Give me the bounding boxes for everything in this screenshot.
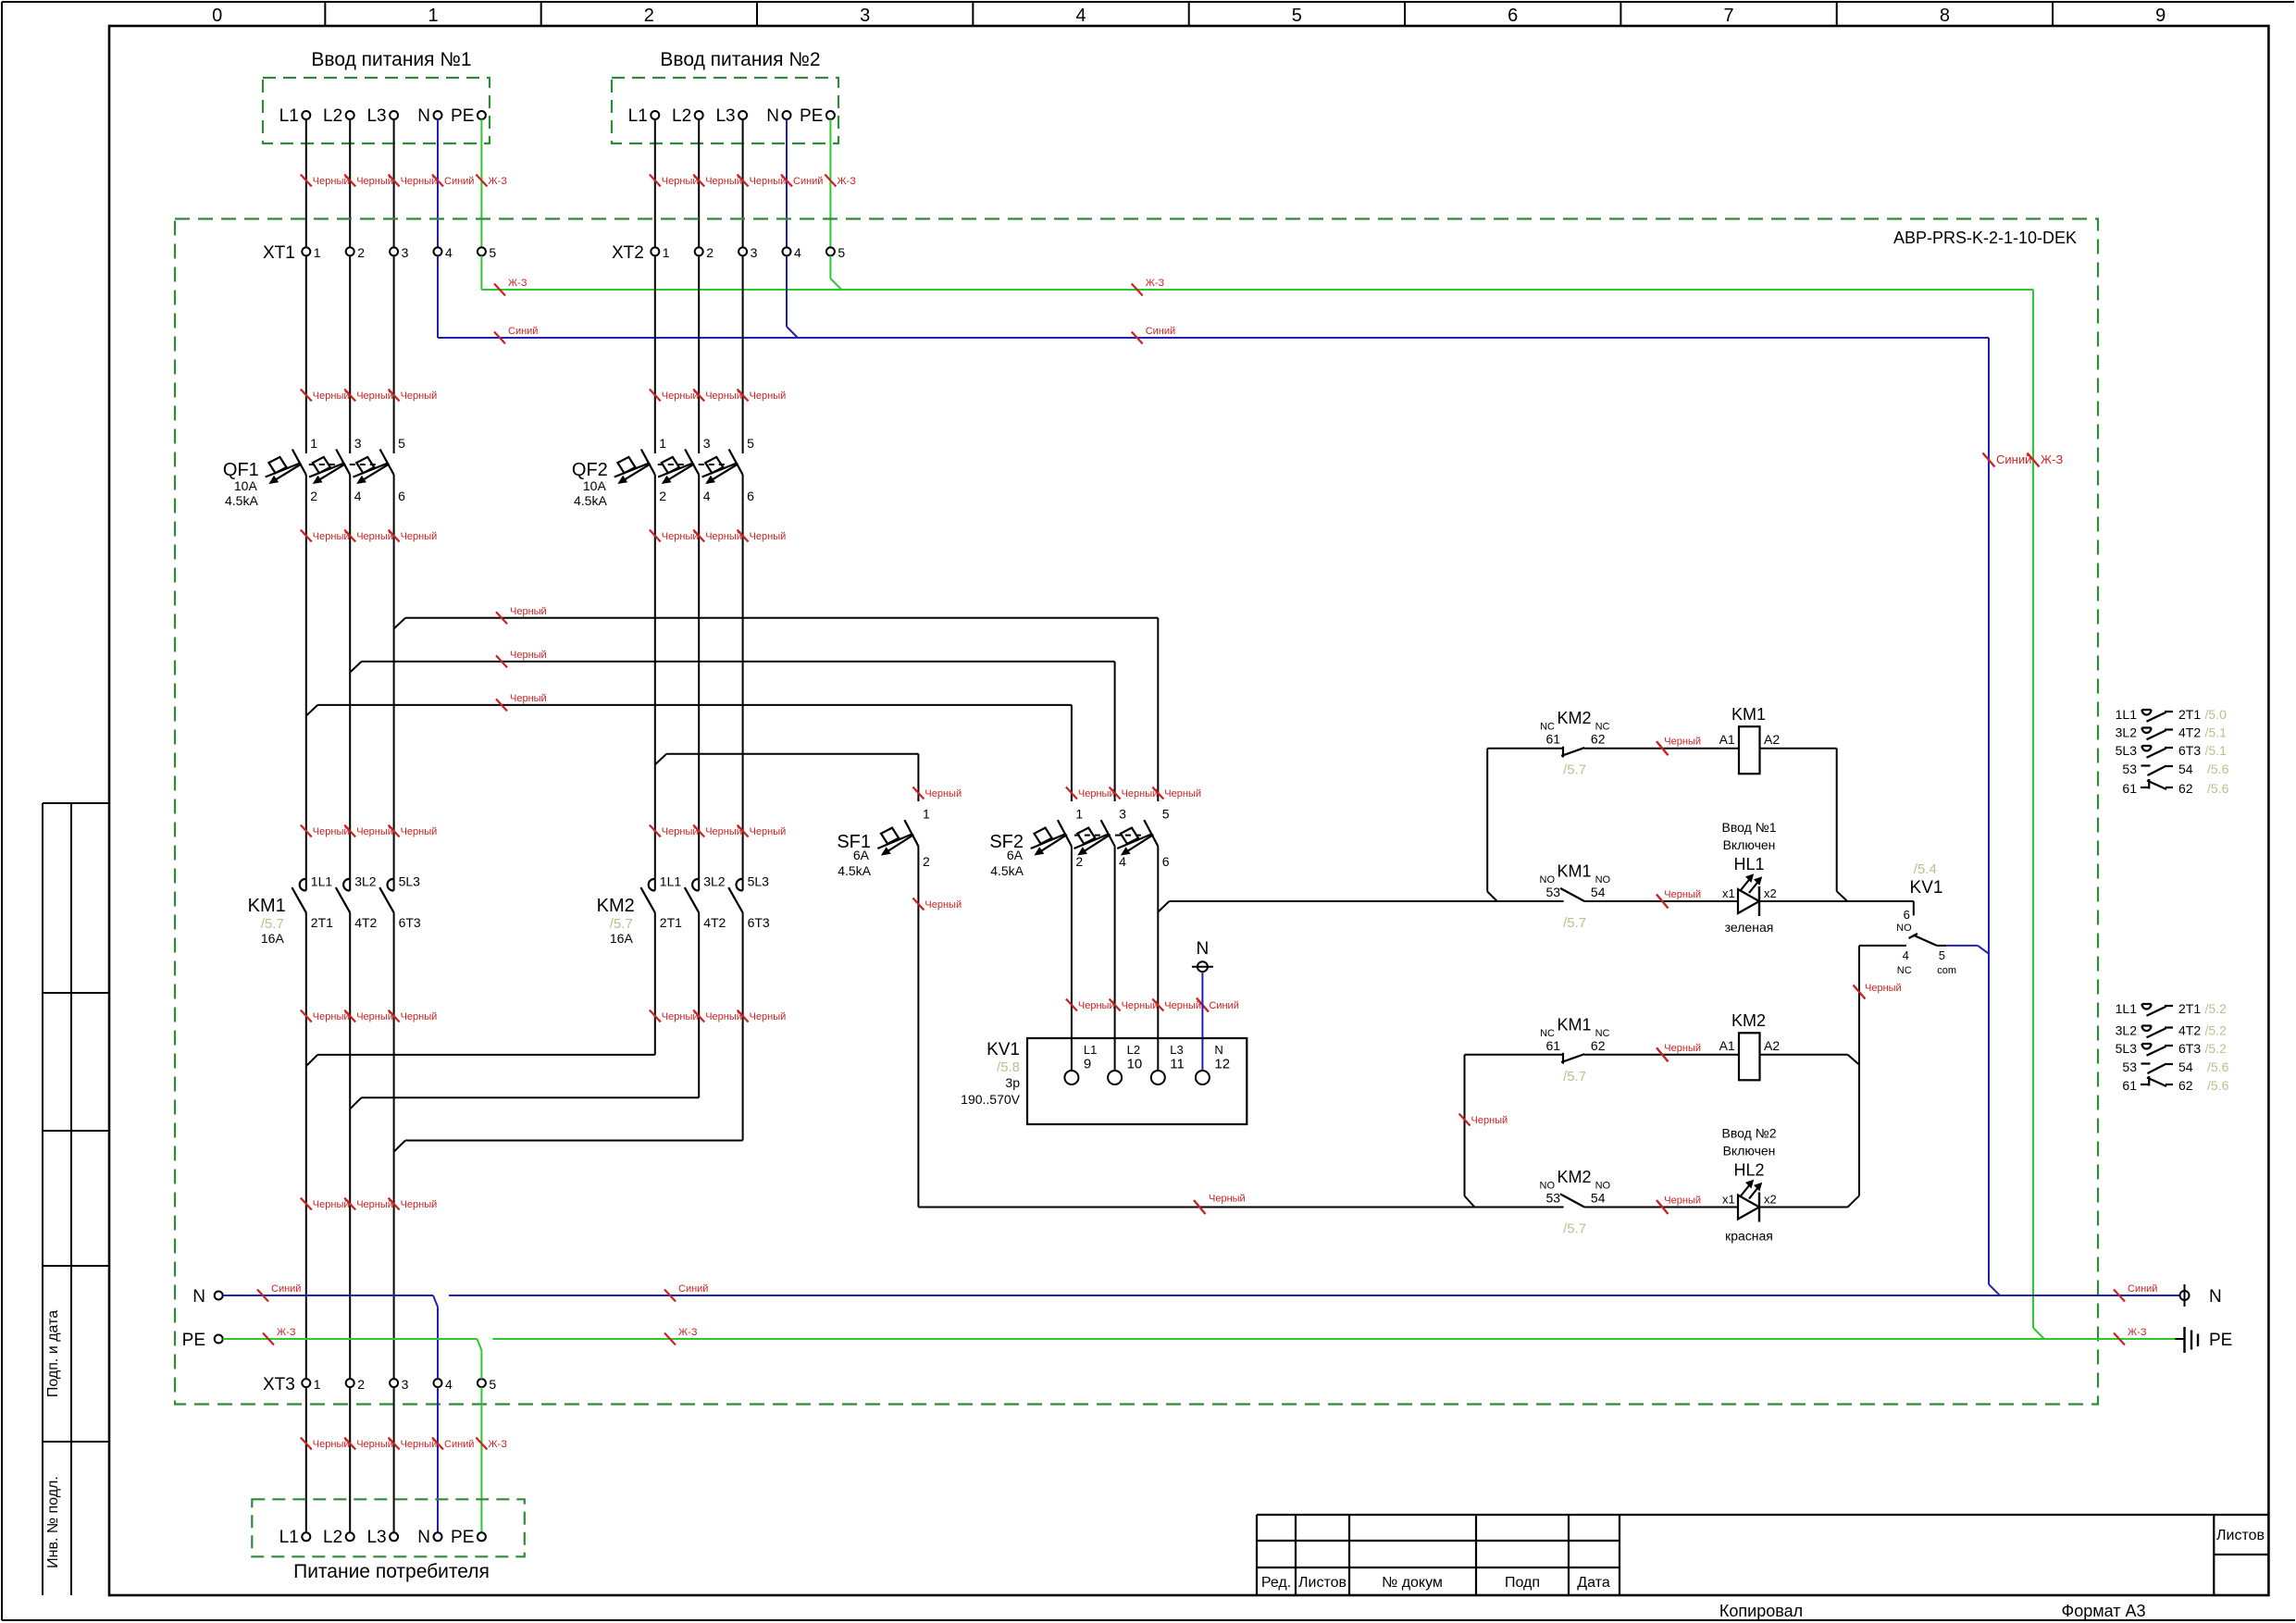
wire KV1 com to N (blue) bbox=[1946, 945, 1978, 947]
colour mark KM2 output L2 bbox=[693, 1010, 704, 1022]
svg-text:Черный: Черный bbox=[313, 531, 350, 542]
junction tap L3->SF2 pole5 bbox=[394, 618, 405, 629]
junction com to N vertical bbox=[1978, 946, 1989, 954]
svg-text:NC: NC bbox=[1897, 965, 1912, 976]
svg-text:5: 5 bbox=[838, 245, 845, 260]
svg-text:2: 2 bbox=[644, 6, 654, 26]
svg-text:1L1: 1L1 bbox=[311, 874, 333, 889]
svg-text:5L3: 5L3 bbox=[748, 874, 770, 889]
svg-text:Черный: Черный bbox=[750, 390, 787, 402]
colour mark KM1 output 3 bbox=[389, 1010, 400, 1022]
breaker QF1 pole 3 bbox=[380, 450, 394, 476]
svg-text:Черный: Черный bbox=[313, 176, 350, 187]
wire KV1 pin4 west bbox=[1859, 945, 1906, 947]
colour mark SF2 pole 3 input bbox=[1152, 787, 1163, 799]
breaker QF2 pole 2 bbox=[685, 450, 699, 476]
svg-text:53: 53 bbox=[1546, 885, 1561, 899]
svg-text:A1: A1 bbox=[1719, 732, 1735, 747]
svg-text:PE: PE bbox=[451, 106, 474, 126]
colour marks KV1 inputs bbox=[1066, 999, 1077, 1011]
PE mark Zh-Z right vert bbox=[2028, 453, 2040, 467]
svg-text:x2: x2 bbox=[1764, 886, 1777, 900]
svg-text:2T1: 2T1 bbox=[2178, 707, 2201, 722]
colour mark SF1 input bbox=[912, 787, 924, 799]
svg-text:3: 3 bbox=[703, 436, 711, 451]
svg-text:/5.7: /5.7 bbox=[1563, 1069, 1586, 1084]
breaker QF1 pole 1 bbox=[292, 450, 306, 476]
PE mark Zh-Z left bbox=[494, 284, 505, 296]
wire L1 input1 bbox=[305, 119, 307, 247]
svg-text:Синий: Синий bbox=[444, 176, 474, 187]
colour mark above QF2 pole 2 bbox=[693, 390, 704, 402]
svg-text:/5.2: /5.2 bbox=[2205, 1001, 2228, 1016]
svg-text:6A: 6A bbox=[853, 848, 870, 862]
svg-text:2T1: 2T1 bbox=[311, 915, 333, 930]
KM1 contact mirror 5L3-6T3 bbox=[2142, 746, 2152, 751]
colour mark row3 riser bbox=[1459, 1114, 1471, 1126]
svg-text:5L3: 5L3 bbox=[2116, 1041, 2138, 1056]
svg-text:L2: L2 bbox=[1127, 1043, 1140, 1057]
svg-text:1: 1 bbox=[1075, 807, 1083, 822]
wire PE right vertical bbox=[2032, 290, 2034, 1328]
svg-text:61: 61 bbox=[2122, 1078, 2137, 1093]
svg-text:62: 62 bbox=[1591, 1038, 1606, 1053]
wire KM2 output L3 down bbox=[742, 912, 744, 1140]
svg-text:NO: NO bbox=[1896, 923, 1912, 934]
wire phase 3 XT->QF1 bbox=[393, 255, 395, 453]
wire tap L1->SF2 pole1 bbox=[317, 704, 1072, 706]
wire KM2-NO to HL2 bbox=[1584, 1207, 1738, 1208]
wire XT3-1 -> consumer bbox=[305, 1387, 307, 1532]
terminal L2 input2 bbox=[695, 111, 703, 119]
svg-text:/5.2: /5.2 bbox=[2205, 1041, 2228, 1056]
svg-text:Черный: Черный bbox=[750, 531, 787, 542]
svg-text:54: 54 bbox=[1591, 1191, 1606, 1206]
wire row1 left riser bbox=[1486, 749, 1488, 892]
ABP-PRS enclosure dashed box bbox=[175, 219, 2098, 1405]
svg-text:Черный: Черный bbox=[356, 176, 393, 187]
svg-text:Черный: Черный bbox=[1664, 1043, 1701, 1054]
svg-text:Черный: Черный bbox=[356, 1439, 393, 1450]
wire KM2 output L1 west bbox=[317, 1054, 655, 1056]
wire QF2 pole 2 -> KM2 bbox=[698, 475, 700, 890]
colour mark row4 bbox=[1657, 1200, 1669, 1214]
wire XT3-3 -> consumer bbox=[393, 1387, 395, 1532]
svg-text:3L2: 3L2 bbox=[703, 874, 726, 889]
terminal N consumer bbox=[434, 1532, 442, 1541]
wire L2 input2 bbox=[698, 119, 700, 247]
wire row2 from SF2-6 branch bbox=[1169, 900, 1563, 902]
svg-text:10: 10 bbox=[1127, 1057, 1143, 1072]
terminal PE input2 bbox=[826, 111, 835, 119]
wire phase 2 XT->QF1 bbox=[349, 255, 351, 453]
svg-text:/5.7: /5.7 bbox=[261, 916, 284, 932]
svg-text:5L3: 5L3 bbox=[399, 874, 421, 889]
svg-text:L3: L3 bbox=[366, 1528, 386, 1547]
wire PE drop from XT2-5 bbox=[829, 255, 831, 279]
svg-text:Ж-З: Ж-З bbox=[277, 1327, 296, 1338]
svg-text:2: 2 bbox=[706, 245, 714, 260]
svg-text:L3: L3 bbox=[1170, 1043, 1183, 1057]
wire tap QF2-L1->SF1 bbox=[666, 753, 918, 755]
svg-text:53: 53 bbox=[2122, 1059, 2137, 1074]
svg-text:Ж-З: Ж-З bbox=[488, 1439, 507, 1450]
wire PE input2 (green) bbox=[829, 119, 831, 247]
KV1 pin 11 (L3) bbox=[1151, 1071, 1165, 1084]
svg-text:Ж-З: Ж-З bbox=[488, 176, 507, 187]
wire L1 input2 bbox=[654, 119, 656, 247]
svg-text:1L1: 1L1 bbox=[660, 874, 682, 889]
svg-text:6T3: 6T3 bbox=[399, 915, 421, 930]
svg-text:KM1: KM1 bbox=[1557, 1015, 1591, 1034]
wire phase 2 XT->QF2 bbox=[698, 255, 700, 453]
svg-text:Черный: Черный bbox=[1078, 1000, 1115, 1011]
svg-text:Черный: Черный bbox=[510, 650, 547, 661]
svg-text:4: 4 bbox=[445, 1377, 453, 1392]
svg-text:Ввод №2: Ввод №2 bbox=[1722, 1126, 1777, 1141]
svg-text:A1: A1 bbox=[1719, 1038, 1735, 1053]
svg-text:1L1: 1L1 bbox=[2116, 707, 2138, 722]
KV1 contact lever bbox=[1909, 934, 1918, 938]
wire HL2 east bbox=[1759, 1207, 1848, 1208]
KM1 contact mirror 3L2-4T2 bbox=[2142, 728, 2152, 734]
svg-text:Черный: Черный bbox=[356, 826, 393, 837]
colour mark above QF2 pole 1 bbox=[650, 390, 661, 402]
svg-text:61: 61 bbox=[1546, 732, 1561, 747]
junction L1 outputs bbox=[306, 1055, 317, 1066]
svg-text:XT3: XT3 bbox=[263, 1375, 295, 1394]
svg-text:PE: PE bbox=[182, 1331, 205, 1350]
wire PE input1 (green) bbox=[480, 119, 482, 247]
svg-text:53: 53 bbox=[2122, 762, 2137, 776]
svg-text:2: 2 bbox=[1075, 854, 1083, 869]
svg-text:x2: x2 bbox=[1764, 1193, 1777, 1207]
svg-text:Листов: Листов bbox=[2216, 1528, 2265, 1543]
svg-text:5L3: 5L3 bbox=[2116, 743, 2138, 758]
N mark Siniy right vert bbox=[1983, 453, 1995, 467]
KV1 pin 9 (L1) bbox=[1064, 1071, 1078, 1084]
svg-text:6A: 6A bbox=[1007, 848, 1024, 862]
lamp HL2 (LED) bbox=[1738, 1196, 1759, 1220]
wire N top bus (blue) bbox=[438, 337, 1989, 339]
svg-text:Черный: Черный bbox=[662, 1011, 699, 1022]
node N tap symbol bbox=[1198, 961, 1208, 972]
N mark Siniy bus-left bbox=[257, 1290, 268, 1302]
svg-text:A2: A2 bbox=[1764, 1038, 1780, 1053]
svg-text:Синий: Синий bbox=[793, 176, 823, 187]
svg-text:№ докум: № докум bbox=[1382, 1575, 1443, 1591]
svg-text:Черный: Черный bbox=[1664, 1196, 1701, 1207]
colour mark above KM2 pole 2 bbox=[693, 825, 704, 837]
wire PE top bus (green) bbox=[481, 289, 2033, 291]
wire SF1 down to row4 bbox=[917, 847, 919, 1208]
svg-text:1: 1 bbox=[310, 436, 317, 451]
breaker QF1 pole 2 bbox=[336, 450, 350, 476]
svg-text:Черный: Черный bbox=[1209, 1194, 1246, 1205]
wire row1 to KM2-NC bbox=[1487, 748, 1563, 750]
coil KM1 bbox=[1739, 726, 1760, 774]
svg-text:KM1: KM1 bbox=[1557, 862, 1591, 881]
lamp HL1 (LED) bbox=[1738, 889, 1759, 913]
wire phase 1 XT->QF2 bbox=[654, 255, 656, 453]
svg-text:Ввод питания №2: Ввод питания №2 bbox=[660, 49, 820, 70]
N mark Siniy bus-right bbox=[2114, 1290, 2125, 1302]
wire right riser rows1-2 bbox=[1836, 749, 1838, 892]
wire KM1 coil A2 east bbox=[1760, 748, 1837, 750]
svg-text:L3: L3 bbox=[366, 106, 386, 126]
svg-text:/5.2: /5.2 bbox=[2205, 1023, 2228, 1038]
svg-text:XT2: XT2 bbox=[612, 243, 644, 263]
coil KM2 bbox=[1739, 1033, 1760, 1080]
contactor KM1 main contact 1 bbox=[300, 879, 306, 891]
wire L2 input1 bbox=[349, 119, 351, 247]
svg-text:62: 62 bbox=[2178, 1078, 2193, 1093]
breaker SF2 pole 1 bbox=[1058, 820, 1072, 846]
N mark Siniy left bbox=[494, 332, 505, 344]
svg-text:5: 5 bbox=[1939, 948, 1945, 962]
junction L2 outputs bbox=[350, 1097, 361, 1109]
junction N right bus bbox=[1989, 1284, 2000, 1295]
svg-text:6: 6 bbox=[1162, 854, 1170, 869]
contactor KM1 main contact 3 bbox=[388, 879, 394, 891]
svg-text:Черный: Черный bbox=[1471, 1115, 1508, 1126]
svg-text:5: 5 bbox=[398, 436, 405, 451]
colour mark KM1 output 2 bbox=[344, 1010, 355, 1022]
terminal L2 consumer bbox=[346, 1532, 354, 1541]
svg-text:Черный: Черный bbox=[356, 390, 393, 402]
svg-text:Черный: Черный bbox=[705, 1011, 742, 1022]
aux contact KM1 NO 53-54 bbox=[1560, 888, 1584, 901]
svg-text:9: 9 bbox=[2155, 6, 2166, 26]
wire PE bus mid (green) bbox=[492, 1338, 2175, 1340]
svg-text:L1: L1 bbox=[1084, 1043, 1097, 1057]
colour mark above QF1 pole 1 bbox=[301, 390, 312, 402]
svg-text:3: 3 bbox=[860, 6, 870, 26]
svg-text:зеленая: зеленая bbox=[1725, 920, 1774, 935]
consumer dashed box bbox=[252, 1499, 525, 1556]
svg-text:Листов: Листов bbox=[1298, 1575, 1347, 1591]
PE mark Zh-Z bus-mid bbox=[664, 1333, 676, 1345]
svg-text:Черный: Черный bbox=[401, 1199, 438, 1210]
wire KM2 output L2 west bbox=[362, 1096, 700, 1098]
svg-text:190..570V: 190..570V bbox=[961, 1092, 1020, 1107]
svg-text:Черный: Черный bbox=[1122, 1000, 1159, 1011]
svg-text:PE: PE bbox=[800, 106, 823, 126]
svg-text:6: 6 bbox=[747, 489, 754, 503]
wire QF1 pole 1 -> KM1 bbox=[305, 475, 307, 890]
svg-text:1: 1 bbox=[314, 1377, 321, 1392]
wire XT3-4 -> consumer (blue) bbox=[437, 1387, 439, 1532]
svg-text:1: 1 bbox=[663, 245, 670, 260]
wire row4 west part bbox=[918, 1207, 1563, 1208]
wire SF1 drop bbox=[917, 754, 919, 801]
svg-text:L2: L2 bbox=[323, 1528, 342, 1547]
svg-text:62: 62 bbox=[1591, 732, 1606, 747]
junction row1 riser to row2 bbox=[1487, 892, 1497, 902]
svg-text:4T2: 4T2 bbox=[2178, 1023, 2201, 1038]
contactor KM2 main contact 2 bbox=[692, 879, 699, 891]
svg-text:4T2: 4T2 bbox=[703, 915, 726, 930]
svg-text:Синий: Синий bbox=[508, 326, 538, 337]
KM1 contact mirror 1L1-2T1 bbox=[2142, 710, 2152, 715]
svg-text:com: com bbox=[1937, 965, 1956, 976]
colour mark below QF2 pole 2 bbox=[693, 530, 704, 542]
svg-text:L1: L1 bbox=[628, 106, 648, 126]
svg-text:53: 53 bbox=[1546, 1191, 1561, 1206]
svg-text:2: 2 bbox=[357, 245, 365, 260]
wire SF2-6 -> KV1 L3 bbox=[1157, 847, 1159, 1072]
svg-text:6T3: 6T3 bbox=[748, 915, 770, 930]
svg-text:x1: x1 bbox=[1722, 1193, 1735, 1207]
svg-text:5: 5 bbox=[747, 436, 754, 451]
KM2 contact mirror 3L2-4T2 bbox=[2142, 1026, 2152, 1032]
svg-text:Черный: Черный bbox=[705, 826, 742, 837]
svg-text:KV1: KV1 bbox=[1910, 878, 1943, 898]
wire KM2 coil A2 east bbox=[1760, 1054, 1848, 1056]
contactor KM2 main contact 1 bbox=[649, 879, 655, 891]
svg-text:4.5kA: 4.5kA bbox=[838, 863, 871, 878]
svg-text:Копировал: Копировал bbox=[1719, 1602, 1803, 1620]
svg-text:3: 3 bbox=[402, 1377, 409, 1392]
svg-text:/5.6: /5.6 bbox=[2207, 1078, 2229, 1093]
svg-text:KM1: KM1 bbox=[1731, 705, 1766, 724]
colour mark above QF1 pole 3 bbox=[389, 390, 400, 402]
svg-text:N: N bbox=[417, 106, 430, 126]
svg-text:KM2: KM2 bbox=[597, 896, 635, 916]
SF2 mechanical link bbox=[1074, 835, 1142, 836]
junction PE XT2-5 bbox=[830, 279, 841, 290]
svg-text:5: 5 bbox=[1292, 6, 1302, 26]
svg-text:5: 5 bbox=[489, 245, 496, 260]
svg-text:Инв. № подл.: Инв. № подл. bbox=[45, 1476, 61, 1568]
svg-text:4: 4 bbox=[794, 245, 801, 260]
svg-text:16A: 16A bbox=[261, 931, 285, 946]
svg-text:Черный: Черный bbox=[750, 826, 787, 837]
terminal L3 input2 bbox=[738, 111, 747, 119]
svg-text:/5.6: /5.6 bbox=[2207, 781, 2229, 796]
svg-text:54: 54 bbox=[2178, 762, 2193, 776]
KM2 contact mirror 1L1-2T1 bbox=[2142, 1004, 2152, 1010]
svg-text:4.5kA: 4.5kA bbox=[990, 863, 1024, 878]
colour mark tap L2->SF2 pole3 bbox=[496, 655, 507, 667]
wire colour marks input1 bbox=[301, 175, 312, 187]
QF2 mechanical link bbox=[658, 464, 727, 465]
KM1 contact mirror 61-62 bbox=[2141, 787, 2149, 788]
input block 1 dashed box bbox=[263, 78, 490, 143]
wire N input2 (blue) bbox=[786, 119, 788, 247]
relay KV1 measuring box bbox=[1027, 1038, 1247, 1124]
wire KV1 pin4 riser down bbox=[1858, 946, 1860, 1196]
wire L3 input2 bbox=[742, 119, 744, 247]
junction tap QF2-L1->SF1 bbox=[655, 754, 666, 765]
svg-text:3: 3 bbox=[354, 436, 362, 451]
svg-text:HL1: HL1 bbox=[1733, 855, 1764, 873]
svg-text:10A: 10A bbox=[583, 478, 607, 493]
wire KV1 pin6 stub bbox=[1913, 901, 1915, 915]
svg-text:3L2: 3L2 bbox=[2116, 725, 2138, 740]
wire N tap -> KV1 pin12 (blue) bbox=[1201, 972, 1203, 1071]
wire KM1 output 3 -> XT3 bbox=[393, 912, 395, 1379]
svg-text:1: 1 bbox=[923, 807, 930, 822]
svg-text:8: 8 bbox=[1940, 6, 1950, 26]
svg-text:1: 1 bbox=[314, 245, 321, 260]
svg-text:Подп: Подп bbox=[1505, 1575, 1540, 1591]
aux contact KM2 NO 53-54 bbox=[1560, 1194, 1584, 1207]
svg-text:/5.4: /5.4 bbox=[1914, 861, 1937, 877]
svg-text:Ж-З: Ж-З bbox=[2041, 452, 2063, 466]
wire phase 1 XT->QF1 bbox=[305, 255, 307, 453]
svg-text:Черный: Черный bbox=[313, 1199, 350, 1210]
wire QF1 pole 3 -> KM1 bbox=[393, 475, 395, 890]
svg-text:Ввод питания №1: Ввод питания №1 bbox=[311, 49, 471, 70]
svg-text:4: 4 bbox=[1075, 6, 1086, 26]
colour mark KM1 output 1 bbox=[301, 1010, 312, 1022]
wire KM1 output 2 -> XT3 bbox=[349, 912, 351, 1379]
ground symbol PE right bbox=[2175, 1338, 2184, 1340]
svg-text:L3: L3 bbox=[715, 106, 735, 126]
terminal L1 input1 bbox=[302, 111, 310, 119]
svg-text:HL2: HL2 bbox=[1733, 1161, 1764, 1180]
svg-text:Черный: Черный bbox=[662, 531, 699, 542]
svg-text:N: N bbox=[417, 1528, 430, 1547]
junction row3 A2 to riser bbox=[1848, 1055, 1859, 1065]
svg-text:Формат А3: Формат А3 bbox=[2062, 1602, 2146, 1620]
svg-text:10A: 10A bbox=[234, 478, 258, 493]
svg-text:Черный: Черный bbox=[401, 1011, 438, 1022]
wire KM1-NC to KM2 coil bbox=[1584, 1054, 1739, 1056]
wire N input1 (blue) bbox=[437, 119, 439, 247]
colour mark row1 bbox=[1657, 741, 1669, 755]
svg-text:Черный: Черный bbox=[705, 531, 742, 542]
junction PE bus XT3-5 bbox=[478, 1339, 482, 1350]
colour marks consumer wires bbox=[301, 1438, 312, 1450]
svg-text:Подп. и дата: Подп. и дата bbox=[45, 1310, 61, 1397]
svg-text:Черный: Черный bbox=[662, 176, 699, 187]
svg-text:/5.6: /5.6 bbox=[2207, 1059, 2229, 1074]
colour mark above QF2 pole 3 bbox=[738, 390, 749, 402]
svg-text:Черный: Черный bbox=[401, 390, 438, 402]
svg-text:1: 1 bbox=[659, 436, 666, 451]
svg-text:16A: 16A bbox=[610, 931, 634, 946]
aux contact KM1 NC 61-62 bbox=[1562, 1053, 1564, 1064]
breaker SF2 pole 2 bbox=[1101, 820, 1115, 846]
wire KM2 output L2 down bbox=[698, 912, 700, 1097]
svg-text:N: N bbox=[1197, 939, 1210, 959]
terminal L2 input1 bbox=[346, 111, 354, 119]
wire N drop XT3-4 (blue) bbox=[437, 1307, 439, 1379]
svg-text:Питание потребителя: Питание потребителя bbox=[293, 1561, 490, 1582]
svg-text:QF1: QF1 bbox=[223, 460, 259, 480]
junction L3 outputs bbox=[394, 1141, 405, 1152]
svg-text:Черный: Черный bbox=[401, 176, 438, 187]
svg-text:Синий: Синий bbox=[1996, 452, 2031, 466]
KV1 pin 12 (N) bbox=[1196, 1071, 1210, 1084]
svg-text:/5.1: /5.1 bbox=[2205, 743, 2228, 758]
wire XT3-5 -> consumer (green) bbox=[480, 1387, 482, 1532]
input block 2 dashed box bbox=[612, 78, 838, 143]
svg-text:/5.7: /5.7 bbox=[1563, 762, 1586, 778]
svg-text:Включен: Включен bbox=[1723, 837, 1776, 852]
svg-text:/5.7: /5.7 bbox=[610, 916, 633, 932]
svg-text:5: 5 bbox=[489, 1377, 496, 1392]
wire SF2-2 -> KV1 L1 bbox=[1071, 847, 1073, 1072]
breaker QF2 pole 3 bbox=[729, 450, 743, 476]
svg-text:/5.8: /5.8 bbox=[997, 1059, 1020, 1075]
svg-text:A2: A2 bbox=[1764, 732, 1780, 747]
colour mark row4 left bbox=[1194, 1200, 1206, 1214]
junction riser to row4 bbox=[1848, 1196, 1860, 1207]
KV1 pin 10 (L2) bbox=[1108, 1071, 1122, 1084]
